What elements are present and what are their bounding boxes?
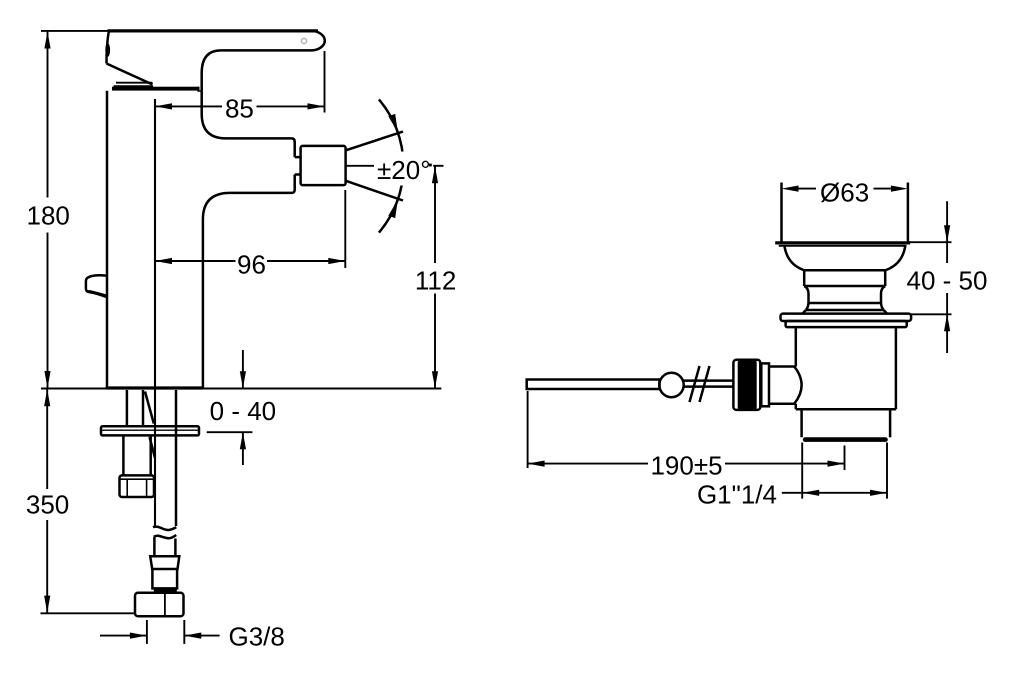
0-40 upper arrow	[240, 371, 246, 388]
washer inner line	[101, 429, 199, 431]
G1"1/4 arrows	[802, 490, 887, 496]
hose end nut G3/8	[135, 593, 184, 617]
dimension 180 arrows	[44, 32, 50, 389]
supply pipe right wall	[175, 390, 178, 526]
handle pivot dot (light circle)	[301, 38, 306, 43]
washer flange under deck	[101, 426, 199, 435]
neck base line	[803, 269, 886, 272]
hose break lower squiggle	[154, 535, 176, 538]
40-50 bottom extension line	[911, 313, 952, 315]
G3/8 dimension lines	[100, 635, 220, 637]
fixing nut	[120, 475, 155, 497]
body left edge	[106, 91, 109, 388]
hose diagonal below washer	[150, 437, 156, 458]
hose diagonal in shank	[145, 392, 154, 424]
handle top edge thick line	[108, 29, 319, 32]
body bottom thick base	[106, 386, 203, 389]
thread ring	[809, 294, 882, 304]
svg-text:±20°: ±20°	[377, 155, 431, 185]
dimension 85 arrows	[155, 103, 325, 109]
aerator neck lines	[295, 157, 301, 174]
faucet handle lever top bar	[109, 31, 325, 51]
port collar	[761, 363, 769, 406]
rod clamp black core	[738, 360, 757, 410]
hose nut facet line	[164, 593, 166, 617]
hose below break right wall	[174, 539, 177, 557]
deck surface extension line	[41, 388, 441, 390]
svg-text:G1"1/4: G1"1/4	[697, 480, 777, 510]
lever cap bottom lines	[114, 83, 154, 87]
hose collar body	[152, 569, 177, 588]
D63 arrows	[782, 186, 908, 192]
G3/8 arrows	[130, 633, 201, 639]
side port inner dome	[794, 367, 801, 404]
dimension 0-40 upper arrow line	[242, 350, 244, 388]
dimension 112 top tick	[433, 165, 443, 167]
aerator axis fan middle line	[346, 165, 374, 167]
lever underside diagonal	[107, 64, 153, 85]
mounting stud wall left	[126, 390, 129, 426]
supply pipe left wall + tap hole extension line	[154, 99, 156, 526]
cartridge ring dark band	[112, 87, 200, 91]
dimension 350 arrows	[44, 389, 50, 612]
dimension 180 line	[47, 32, 49, 388]
svg-text:96: 96	[237, 250, 266, 280]
hose below break left wall	[153, 537, 156, 556]
tail pipe right side	[889, 409, 892, 437]
svg-text:112: 112	[415, 266, 456, 296]
dimension 190+-5 extension line	[527, 391, 529, 468]
190+-5 dimension line	[528, 463, 845, 465]
350 bottom extension line	[41, 612, 136, 614]
dimension 96 arrows	[155, 258, 345, 264]
G1"1/4 dimension line	[782, 492, 887, 494]
horizontal pull rod thin section	[683, 381, 733, 387]
40-50 dimension line	[946, 201, 948, 353]
trumpet neck right curve	[886, 247, 905, 270]
hose break upper squiggle	[153, 527, 176, 531]
dimension G1"1/4 ticks	[802, 443, 887, 499]
hose end dark band	[154, 589, 177, 593]
spout / neck upper outline	[202, 50, 295, 157]
drain body bottom	[796, 408, 896, 411]
band step to spout edge	[198, 87, 202, 91]
mounting stud wall right	[142, 390, 145, 426]
angle arc	[379, 99, 404, 232]
dimension 350 line	[46, 389, 48, 612]
40-50 top extension line	[908, 241, 952, 243]
drain body left side	[795, 327, 798, 409]
pull rod bar	[527, 380, 660, 390]
spout lower outline and body right edge	[203, 175, 295, 389]
0-40 lower arrow line	[242, 432, 244, 465]
svg-text:190±5: 190±5	[650, 451, 722, 481]
dimension 112 line	[434, 166, 436, 388]
arc arrow lower	[388, 199, 398, 218]
svg-text:180: 180	[27, 200, 70, 230]
fixing nut top face line	[120, 478, 155, 480]
dimension 112 arrows	[432, 166, 438, 388]
fan upper line	[346, 132, 403, 151]
fan lower line	[346, 181, 403, 201]
chamfer out	[806, 302, 884, 310]
stud below washer right	[149, 435, 152, 475]
drain axis tick	[844, 446, 846, 471]
arc arrow upper	[388, 114, 398, 133]
rod ball joint	[659, 373, 683, 397]
svg-text:350: 350	[26, 490, 69, 520]
flare to washer	[803, 310, 887, 314]
tail pipe left side	[800, 409, 803, 437]
drain top washer plate	[781, 314, 912, 321]
pop-up rod knob on body left	[86, 275, 107, 297]
stud below washer left	[122, 435, 125, 475]
rod clamp block	[733, 360, 760, 410]
svg-text:G3/8: G3/8	[229, 621, 285, 651]
trumpet neck left curve	[785, 247, 804, 270]
plug cap left side	[780, 183, 783, 243]
svg-text:Ø63: Ø63	[820, 178, 869, 208]
dimension G3/8 ticks	[147, 620, 184, 644]
40-50 arrows	[944, 225, 950, 331]
96 right extension line (under aerator)	[344, 190, 346, 268]
190+-5 arrows	[528, 461, 845, 467]
0-40 lower tick	[207, 431, 253, 433]
lever left edge	[106, 31, 108, 63]
top extension line	[41, 30, 108, 32]
svg-text:40 - 50: 40 - 50	[907, 265, 988, 295]
drain body right side	[895, 327, 898, 409]
dimension 85 line	[155, 105, 325, 107]
svg-text:0 - 40: 0 - 40	[210, 396, 277, 426]
label mask	[376, 152, 433, 186]
side port top/bottom	[769, 367, 796, 404]
dimension D63 line segments	[799, 188, 891, 190]
collar cylinder	[804, 270, 885, 286]
85 right extension line (handle end)	[324, 51, 326, 113]
small dot artifact	[429, 164, 432, 167]
drain second plate	[786, 321, 907, 327]
plug flange lower line	[779, 245, 907, 247]
tail pipe dark end band	[803, 437, 888, 442]
dimension 96 line	[155, 260, 345, 262]
aerator body	[301, 146, 346, 185]
chamfer in	[804, 286, 885, 294]
rod break slashes	[690, 366, 710, 402]
fixing nut facet lines	[127, 479, 146, 497]
knob inner line	[89, 291, 108, 296]
plug flange thick top	[775, 241, 910, 244]
plug cap right side	[907, 183, 910, 243]
0-40 lower arrow	[240, 432, 246, 449]
lever edge bulge (dark ellipse)	[105, 43, 110, 57]
svg-text:85: 85	[225, 94, 254, 124]
hose collar taper	[150, 556, 179, 569]
